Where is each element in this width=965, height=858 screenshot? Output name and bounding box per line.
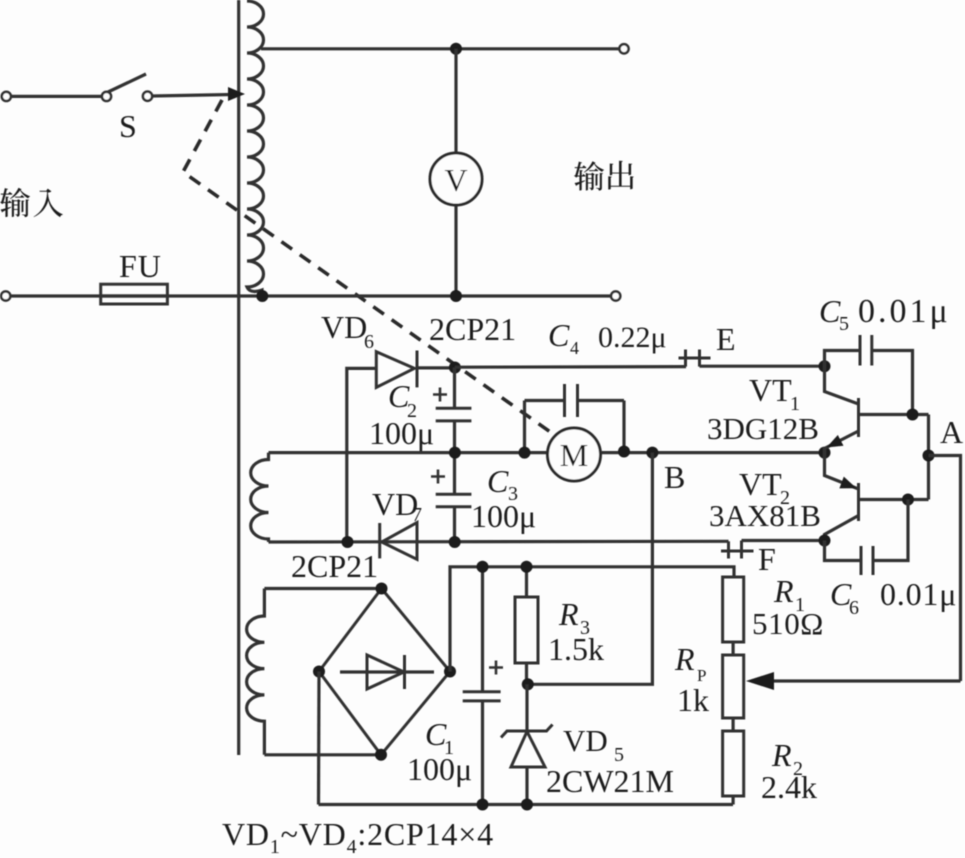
label VT1 [749, 372, 800, 415]
wire E row right [700, 365, 825, 368]
wire bottom rail [319, 803, 734, 806]
svg-text:C: C [819, 293, 841, 329]
svg-text:3AX81B: 3AX81B [709, 498, 821, 533]
connector E [679, 350, 711, 367]
svg-text:V: V [444, 162, 467, 198]
node top junction [450, 43, 462, 55]
label C3 [487, 463, 518, 505]
wire E row left [455, 365, 686, 369]
node B [646, 447, 658, 459]
node VD5 bottom [521, 799, 533, 811]
svg-text:5: 5 [839, 313, 849, 335]
potentiometer Rp [723, 655, 744, 731]
label B [664, 459, 685, 495]
node R3 bottom [522, 678, 534, 690]
svg-text:2CW21M: 2CW21M [546, 763, 674, 799]
svg-text:VD: VD [321, 309, 367, 345]
label VT2 [739, 466, 790, 509]
wire F row right [742, 539, 825, 542]
svg-text:1k: 1k [677, 682, 709, 718]
wire B row [269, 451, 825, 454]
node winding bottom lead [256, 290, 268, 302]
diode VD7 [380, 523, 417, 560]
wire A to right rail [929, 456, 961, 682]
svg-text:0.22μ: 0.22μ [598, 321, 667, 354]
node bridge left [313, 666, 325, 678]
svg-text:R: R [773, 573, 794, 609]
node voltmeter bottom [450, 290, 462, 302]
svg-text:R: R [771, 737, 792, 773]
transformer winding W2 [251, 453, 269, 542]
capacitor C4 (motor) [525, 384, 625, 453]
node B-row/C2 [449, 447, 461, 459]
label S [119, 108, 137, 144]
node C3 bottom [449, 536, 461, 548]
capacitor C6 [825, 500, 909, 576]
tap arrow [228, 87, 245, 101]
capacitor C3 [431, 453, 471, 542]
wire bridge minus to bottom rail [317, 672, 321, 805]
label VD5 [563, 723, 624, 766]
label C6 0.01u [830, 576, 957, 619]
node C1 top [477, 561, 489, 573]
diode VD6 [376, 351, 452, 388]
label Rp [674, 641, 706, 685]
wire B vertical [528, 453, 653, 685]
svg-text:VT: VT [739, 466, 782, 502]
wire switch to tap [152, 95, 232, 97]
label R2 [771, 737, 803, 780]
svg-text:E: E [716, 321, 736, 357]
node A [923, 450, 935, 462]
node R3 top [521, 561, 533, 573]
svg-text:C: C [487, 463, 509, 499]
label 100u (C1) [407, 751, 472, 787]
dashed mechanical linkage [183, 100, 556, 436]
label 1k [677, 682, 709, 718]
svg-text:0.01μ: 0.01μ [858, 293, 951, 330]
label 2CP21 (VD6) [429, 311, 516, 347]
svg-text:100μ: 100μ [369, 415, 434, 451]
svg-text:100μ: 100μ [407, 751, 472, 787]
svg-text:7: 7 [412, 504, 422, 526]
svg-text:2CP21: 2CP21 [429, 311, 516, 347]
svg-text:M: M [560, 437, 588, 473]
transistor VT1 [825, 366, 929, 452]
wire voltmeter branch [454, 49, 457, 296]
wire bridge top lead [264, 587, 381, 590]
resistor R2 [723, 731, 744, 805]
capacitor C1 [463, 567, 503, 805]
svg-text:6: 6 [849, 597, 859, 619]
svg-text:2.4k: 2.4k [761, 769, 817, 805]
svg-text:A: A [940, 414, 963, 450]
svg-text:VT: VT [749, 372, 792, 408]
svg-text:6: 6 [364, 331, 374, 353]
label FU [119, 248, 162, 284]
label VD1~VD4:2CP14x4 [222, 816, 494, 858]
wire bridge bottom lead [264, 753, 381, 756]
capacitor C2 [433, 368, 471, 454]
node E-row / C2 top [449, 362, 461, 374]
svg-text:100μ: 100μ [471, 498, 536, 534]
wire input bottom (FU row) [10, 294, 611, 297]
label E [716, 321, 736, 357]
motor M [548, 428, 601, 481]
svg-text:1.5k: 1.5k [548, 631, 604, 667]
node C1 bottom [477, 799, 489, 811]
label R1 [773, 573, 805, 616]
svg-text:R: R [558, 596, 579, 632]
node motor right [618, 446, 630, 458]
svg-text:0.01μ: 0.01μ [880, 576, 957, 612]
label 2CW21M [546, 763, 674, 799]
node motor left [519, 447, 531, 459]
svg-text:4: 4 [570, 338, 579, 358]
fuse FU [101, 284, 168, 304]
label R3 [558, 596, 590, 639]
transformer primary winding W1 [247, 1, 264, 296]
transformer winding W3 [247, 589, 265, 755]
node bridge top [376, 583, 388, 595]
label 1.5k [548, 631, 604, 667]
label 100u (C3) [471, 498, 536, 534]
wire top output [261, 47, 620, 50]
svg-text:S: S [119, 108, 137, 144]
label C1 [425, 716, 454, 759]
node VT2 base / C6 [902, 494, 914, 506]
terminal input top [2, 92, 11, 101]
label 510ohm [752, 606, 824, 641]
wire base rail to A [927, 415, 930, 500]
label 3AX81B [709, 498, 821, 533]
zener VD5 [501, 684, 553, 804]
wire VD6 anode vertical [347, 368, 377, 542]
transistor VT2 [825, 453, 929, 541]
label A [940, 414, 963, 450]
connector F [721, 541, 754, 559]
label 输入 (input) [0, 188, 30, 217]
label 100u (C2) [369, 415, 434, 451]
terminal top output [619, 44, 628, 53]
switch S [102, 74, 152, 101]
svg-text:B: B [664, 459, 685, 495]
svg-text:510Ω: 510Ω [752, 606, 824, 641]
svg-text:F: F [758, 541, 776, 577]
node bridge bottom [375, 749, 387, 761]
label C2 [388, 378, 417, 422]
terminal input bottom [1, 291, 10, 300]
wire input top [11, 95, 102, 98]
node VD7/W2 [342, 536, 354, 548]
svg-text:FU: FU [119, 248, 162, 284]
wire F row [269, 540, 729, 544]
terminal output bottom [611, 291, 620, 300]
wiper arrow Rp [746, 672, 961, 690]
wire bridge plus to supply rail [450, 567, 734, 672]
label F [758, 541, 776, 577]
node emitters [819, 447, 831, 459]
node bridge right [444, 666, 456, 678]
label C4 0.22u [548, 317, 667, 358]
label VD7 [372, 486, 422, 526]
svg-text:R: R [674, 641, 695, 677]
label VD6 [321, 309, 374, 353]
transformer T core line [237, 0, 240, 755]
label C5 0.01u [819, 293, 951, 335]
svg-text:C: C [548, 317, 570, 353]
node E [819, 360, 831, 372]
label 输出 (output) [574, 161, 604, 190]
svg-text:VD: VD [563, 723, 608, 758]
svg-text:3DG12B: 3DG12B [707, 411, 819, 446]
label 2CP21 (VD7) [291, 548, 378, 584]
label 3DG12B [707, 411, 819, 446]
voltmeter P1 [430, 153, 482, 205]
node VT2 collector [819, 535, 831, 547]
capacitor C5 [825, 335, 913, 415]
resistor R3 [515, 567, 538, 685]
resistor R1 [723, 577, 744, 655]
node VT1 base / C5 [907, 409, 919, 421]
bridge rectifier VD1-VD4 [319, 589, 450, 755]
svg-text:VD1~VD4:2CP14×4: VD1~VD4:2CP14×4 [222, 816, 494, 858]
label 2.4k [761, 769, 817, 805]
svg-text:2CP21: 2CP21 [291, 548, 378, 584]
